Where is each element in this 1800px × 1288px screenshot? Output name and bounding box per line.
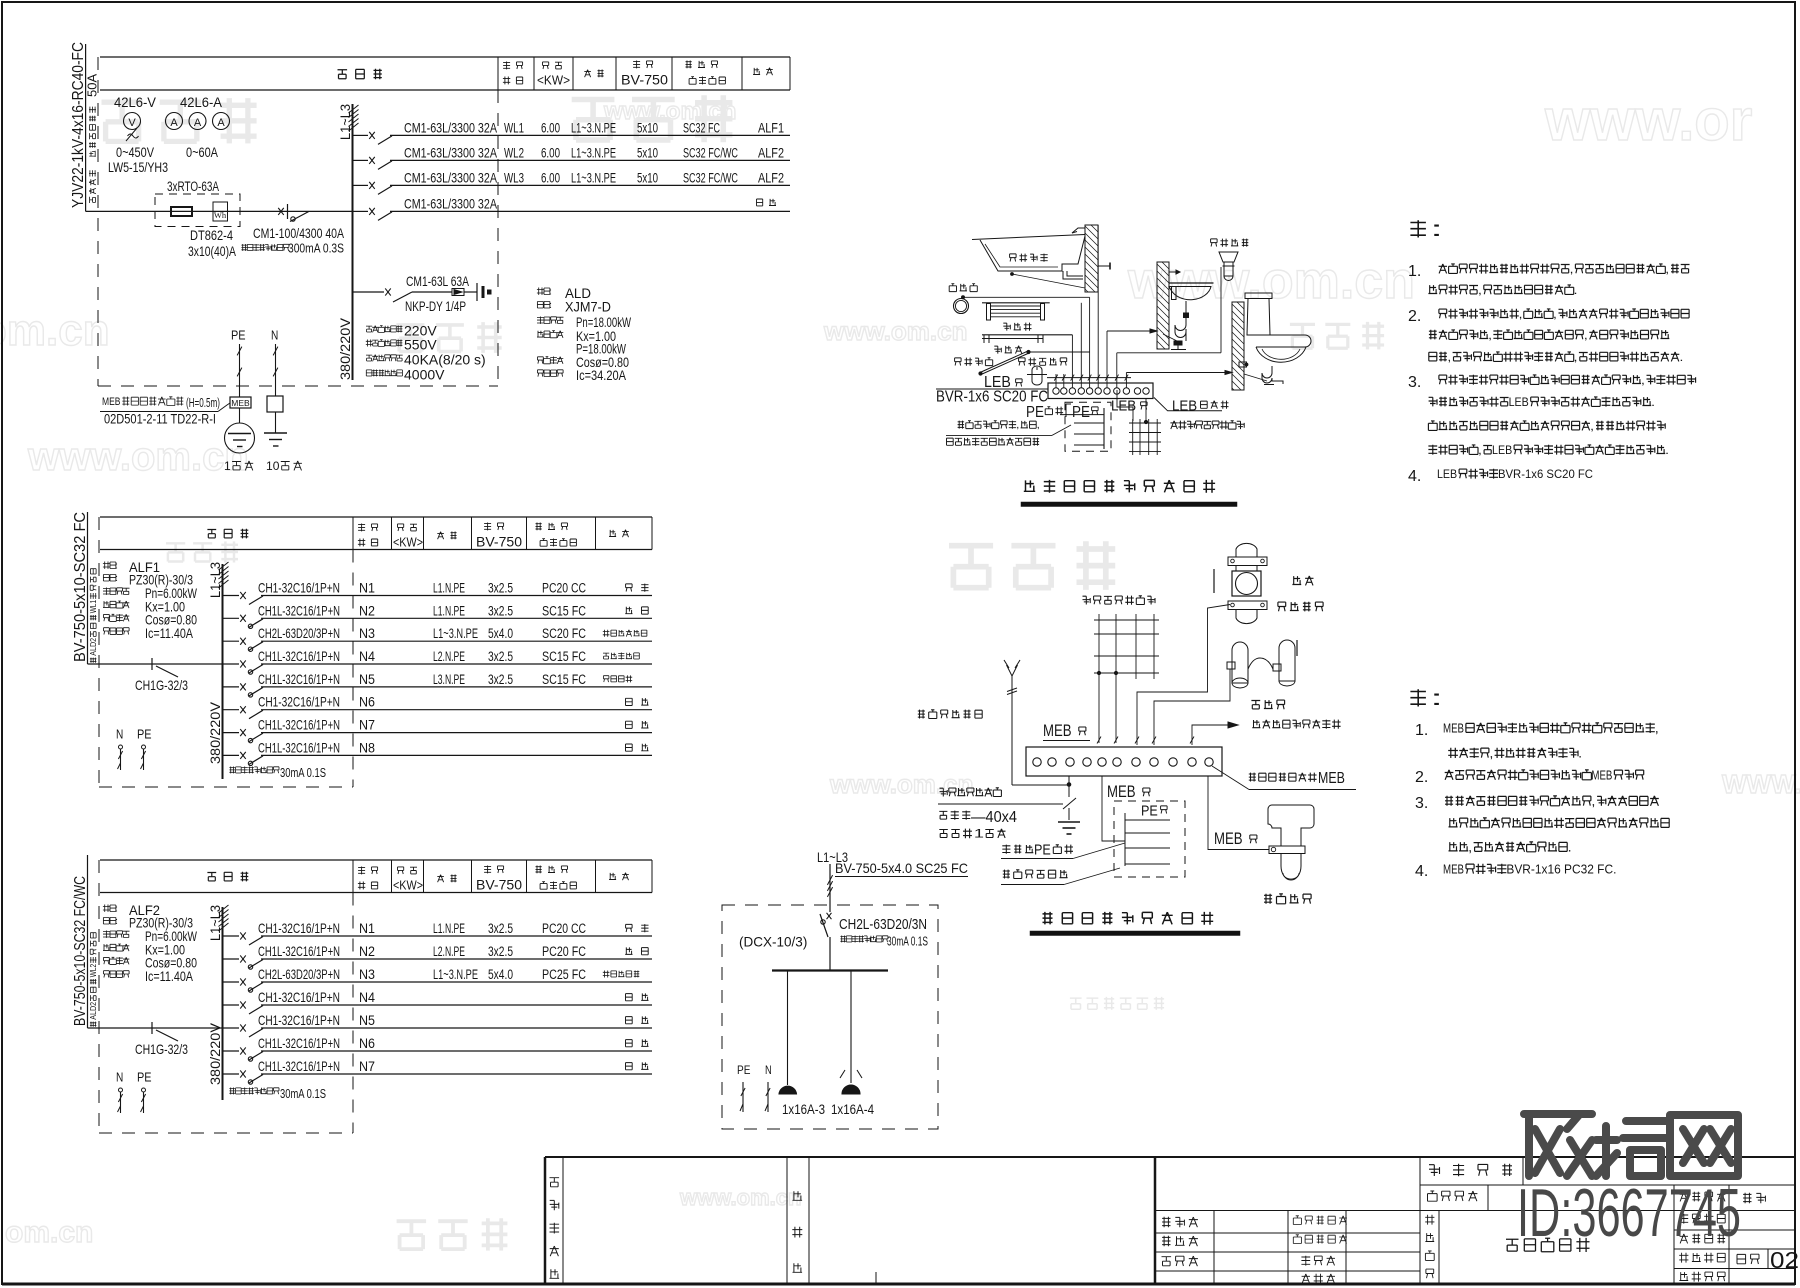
- svg-text:02D501-2-11 TD22-R-I: 02D501-2-11 TD22-R-I: [104, 412, 216, 427]
- label chu tu zhang (issue stamp): [793, 1191, 803, 1200]
- svg-text::: :: [115, 573, 118, 583]
- arrow other parts (qita xuyao lianjie de bujian): [1192, 725, 1228, 745]
- svg-text:N4: N4: [359, 990, 375, 1005]
- svg-text:3.: 3.: [1408, 374, 1421, 391]
- svg-text:5x10: 5x10: [637, 145, 658, 160]
- panel ALF1 enclosure (dashed): [98, 517, 100, 787]
- svg-text:N6: N6: [359, 1036, 375, 1051]
- ALF1 table header: [100, 516, 652, 518]
- svg-text:N: N: [116, 1070, 123, 1085]
- svg-text:PE: PE: [1141, 802, 1158, 819]
- svg-text:PE: PE: [137, 1070, 152, 1085]
- svg-text:42L6-V: 42L6-V: [114, 95, 156, 110]
- toilet bond fitting: [1239, 362, 1247, 367]
- wire to toilet: [1126, 372, 1232, 374]
- svg-text:L1~3.N.PE: L1~3.N.PE: [433, 967, 478, 982]
- svg-text:(DCX-10/3): (DCX-10/3): [739, 933, 807, 949]
- svg-text:SC32 FC/WC: SC32 FC/WC: [683, 170, 738, 185]
- notes block 2 (zhu): [1410, 687, 1443, 710]
- svg-text:CH1L-32C16/1P+N: CH1L-32C16/1P+N: [258, 648, 340, 664]
- label MEB terminal strip (zongdengdianwei duanzipai MEB): [1212, 766, 1249, 790]
- hot water pipes (reshuiguan): [1232, 642, 1248, 683]
- svg-text:MEB: MEB: [1043, 721, 1072, 740]
- svg-text:N4: N4: [359, 649, 375, 664]
- svg-text:N7: N7: [359, 1059, 375, 1074]
- svg-text:3x2.5: 3x2.5: [488, 581, 513, 596]
- ground symbol MEB: [1058, 821, 1080, 823]
- svg-text:N: N: [116, 727, 123, 742]
- metal handrail (jinshu fushou) diagonal: [980, 351, 1028, 373]
- svg-text:380/220V: 380/220V: [207, 1022, 223, 1085]
- svg-text:BV-750-5x10-SC32 FC: BV-750-5x10-SC32 FC: [72, 512, 89, 662]
- svg-text:MEB: MEB: [1318, 770, 1345, 787]
- svg-text:WL1: WL1: [89, 599, 98, 613]
- isolator box on N: [267, 396, 283, 412]
- svg-text:ALF2: ALF2: [758, 145, 784, 160]
- bus L1-L3 ALD: [352, 104, 354, 380]
- svg-text:,: ,: [1478, 443, 1482, 457]
- floor drain (jinshu dilou): [1211, 239, 1249, 247]
- toilet P-trap: [1262, 366, 1283, 384]
- svg-text:,: ,: [1447, 350, 1451, 364]
- tick in middle cell: [875, 1272, 877, 1284]
- svg-text:—40x4: —40x4: [971, 809, 1017, 826]
- wire to sink: [1107, 330, 1157, 332]
- svg-text:CH1L-32C16/1P+N: CH1L-32C16/1P+N: [258, 943, 340, 959]
- label diyagui PE mupai: [1002, 845, 1033, 854]
- svg-text:,: ,: [1468, 840, 1472, 854]
- svg-text:1x16A-4: 1x16A-4: [831, 1101, 874, 1117]
- svg-text:<KW>: <KW>: [537, 73, 570, 88]
- svg-text:BV-750: BV-750: [476, 533, 522, 549]
- main breaker CM1-100/4300: [278, 208, 284, 215]
- PE outgoing terminal: [231, 328, 246, 343]
- PE busbar bars: [1103, 408, 1105, 449]
- svg-text:BVR-1x16 PC32 FC.: BVR-1x16 PC32 FC.: [1506, 862, 1616, 876]
- svg-text:(H=0.5m): (H=0.5m): [186, 395, 220, 410]
- breaker CH1-32C16/1P+N circuit N4: [223, 1004, 240, 1006]
- surge protector branch CM1-63L 63A NKP-DY: [353, 291, 385, 293]
- svg-text::: :: [549, 300, 552, 310]
- svg-text:L2.N.PE: L2.N.PE: [433, 649, 465, 664]
- svg-text:4000V: 4000V: [404, 367, 445, 383]
- wire MEB to water meter: [1137, 605, 1230, 746]
- right column cells: [1673, 1185, 1675, 1284]
- PE busbar label: [1026, 404, 1044, 421]
- svg-text:ALD2: ALD2: [89, 637, 98, 655]
- svg-text:N2: N2: [359, 944, 375, 959]
- label zhiye zhuce zhang (license stamp): [550, 1178, 560, 1187]
- svg-text:LEB: LEB: [1509, 395, 1529, 409]
- svg-text:5x10: 5x10: [637, 170, 658, 185]
- svg-text:,: ,: [1574, 350, 1578, 364]
- breaker CH1L-32C16/1P+N circuit N2: [223, 617, 240, 619]
- decor: [102, 98, 257, 143]
- svg-text:WWW.: WWW.: [1722, 769, 1800, 799]
- svg-text:.: .: [1665, 443, 1669, 457]
- svg-text:MEB: MEB: [1214, 829, 1243, 848]
- svg-text:CM1-63L/3300 32A: CM1-63L/3300 32A: [404, 169, 498, 185]
- svg-text:3x2.5: 3x2.5: [488, 921, 513, 936]
- main incoming panel dashed box: [1114, 801, 1185, 877]
- MEB box label: [102, 396, 183, 408]
- breaker CH1L-32C16/1P+N circuit N7: [223, 732, 240, 734]
- svg-text:BV-750: BV-750: [621, 71, 668, 87]
- svg-text:ALF1: ALF1: [758, 120, 784, 135]
- svg-text:<KW>: <KW>: [393, 878, 423, 893]
- incoming feeder YJV22 cable: [85, 44, 87, 211]
- toilet tank and bowl: [1245, 293, 1272, 299]
- cell gongcheng mingcheng: [1428, 1191, 1478, 1201]
- svg-text:CH2L-63D20/3P+N: CH2L-63D20/3P+N: [258, 966, 340, 982]
- sink P-trap: [1185, 301, 1187, 313]
- svg-text:LEB: LEB: [1492, 443, 1512, 457]
- svg-text:A: A: [170, 117, 178, 129]
- MEB bonding box: [230, 397, 251, 408]
- svg-text:N: N: [765, 1063, 772, 1077]
- svg-text:,: ,: [1519, 307, 1523, 321]
- svg-text:CH1L-32C16/1P+N: CH1L-32C16/1P+N: [258, 717, 340, 733]
- title MEB diagram: [1043, 912, 1214, 925]
- breaker CH1-32C16/1P+N circuit N5: [223, 1027, 240, 1029]
- svg-text::: :: [115, 916, 118, 926]
- bus L1-L3 ALF1: [222, 564, 224, 779]
- svg-text:L2.N.PE: L2.N.PE: [433, 944, 465, 959]
- label MEB xian (middle): [1107, 782, 1136, 801]
- svg-text:A: A: [194, 117, 202, 129]
- ALD voltage spec text: [366, 326, 402, 333]
- bathroom panel dashed box: [1065, 402, 1111, 451]
- svg-text:WL1: WL1: [504, 120, 524, 135]
- svg-text:L1~3.N.PE: L1~3.N.PE: [571, 170, 616, 185]
- svg-text:PE: PE: [737, 1063, 750, 1077]
- N PE terminals ALF2: [116, 1070, 123, 1085]
- svg-text:www.om.cn: www.om.cn: [27, 435, 249, 479]
- svg-text:,: ,: [1655, 721, 1659, 735]
- svg-text:www.or: www.or: [1544, 88, 1752, 153]
- svg-text:380/220V: 380/220V: [207, 701, 223, 764]
- wire wall to trap diagonal: [1163, 334, 1181, 343]
- svg-text:om.cn: om.cn: [5, 1216, 93, 1249]
- breaker CM1-63L/3300 32A row: [353, 210, 369, 212]
- svg-text::: :: [1430, 687, 1443, 710]
- svg-text:L1~3.N.PE: L1~3.N.PE: [433, 626, 478, 641]
- svg-text:CH1-32C16/1P+N: CH1-32C16/1P+N: [258, 694, 340, 710]
- svg-text:ALF2: ALF2: [758, 170, 784, 185]
- cell tuzhi neirong (drawing content): [1438, 1211, 1440, 1285]
- breaker CH1L-32C16/1P+N circuit N8: [223, 754, 240, 756]
- svg-text:3x2.5: 3x2.5: [488, 649, 513, 664]
- ALD table header: [100, 56, 790, 58]
- svg-text:<KW>: <KW>: [393, 535, 423, 550]
- svg-text:CH1-32C16/1P+N: CH1-32C16/1P+N: [258, 1012, 340, 1028]
- svg-text:,: ,: [1590, 419, 1594, 433]
- feeder note vertical text: [89, 170, 96, 203]
- leakage current note ALF1: [229, 767, 279, 774]
- svg-text:PE: PE: [1026, 404, 1044, 421]
- main switch CH1G-32/3 ALF2: [151, 1022, 153, 1034]
- svg-text:10: 10: [266, 459, 280, 473]
- svg-text:PE: PE: [231, 328, 246, 343]
- LEB terminal strip label: [1154, 398, 1222, 411]
- svg-text:3xRTO-63A: 3xRTO-63A: [167, 179, 219, 194]
- svg-text:N2: N2: [359, 603, 375, 618]
- svg-text:www.om.cn: www.om.cn: [1127, 252, 1415, 310]
- svg-text:ID:3667745: ID:3667745: [1517, 1175, 1741, 1251]
- breaker CH1L-32C16/1P+N circuit N2: [223, 958, 240, 960]
- risers from strip to fixtures: [1055, 374, 1057, 388]
- bathtub label jinshu yugang: [1010, 254, 1048, 262]
- svg-text:BV-750-5x4.0 SC25 FC: BV-750-5x4.0 SC25 FC: [835, 860, 968, 876]
- svg-text:40KA(8/20 s): 40KA(8/20 s): [404, 352, 486, 368]
- ALF1 panel info text: [103, 560, 118, 570]
- svg-text:SC32 FC/WC: SC32 FC/WC: [683, 145, 738, 160]
- title LEB diagram: [1024, 480, 1215, 493]
- lamp circuit 1x16A-4: [850, 971, 852, 1084]
- svg-text:Ic=11.40A: Ic=11.40A: [145, 625, 194, 641]
- PE N terminals DCX: [737, 1063, 750, 1077]
- towel rack (yujinjia): [982, 302, 1050, 304]
- feeder wire into ALF2: [87, 855, 89, 1028]
- LEB wire label 2: [1111, 397, 1136, 414]
- breaker CH1L-32C16/1P+N circuit N5: [223, 686, 240, 688]
- svg-text:3x2.5: 3x2.5: [488, 603, 513, 618]
- svg-text:CH1-32C16/1P+N: CH1-32C16/1P+N: [258, 580, 340, 596]
- svg-text:N6: N6: [359, 695, 375, 710]
- svg-text:,: ,: [1553, 307, 1557, 321]
- svg-text:4.: 4.: [1408, 468, 1421, 485]
- svg-text:CM1-100/4300 40A: CM1-100/4300 40A: [253, 225, 344, 241]
- svg-text:WL2: WL2: [89, 963, 98, 977]
- watermark oumuwang logo: [1524, 1114, 1592, 1176]
- label zongjinxian peidianpan: [1003, 870, 1068, 879]
- svg-text:CM1-63L/3300 32A: CM1-63L/3300 32A: [404, 195, 498, 211]
- washbasin: [1169, 271, 1180, 273]
- svg-text:CH1-32C16/1P+N: CH1-32C16/1P+N: [258, 920, 340, 936]
- svg-text:SC15 FC: SC15 FC: [542, 672, 586, 687]
- svg-text:4.: 4.: [1415, 863, 1428, 880]
- svg-text:LEB: LEB: [1437, 467, 1457, 481]
- svg-text:30mA 0.1S: 30mA 0.1S: [280, 765, 326, 780]
- svg-text:XJM7-D: XJM7-D: [565, 299, 611, 315]
- svg-text:1: 1: [224, 459, 231, 473]
- svg-text:MEB: MEB: [102, 396, 120, 408]
- svg-text:Ic=34.20A: Ic=34.20A: [576, 367, 627, 383]
- svg-text:MEB: MEB: [1107, 782, 1136, 801]
- ALF2 table header: [100, 859, 652, 861]
- svg-text:PC20 FC: PC20 FC: [542, 944, 586, 959]
- svg-text:BVR-1x6 SC20 FC: BVR-1x6 SC20 FC: [1498, 467, 1593, 481]
- cell jianshe danwei: [1419, 1157, 1421, 1211]
- fuse DT862-4: [171, 207, 192, 216]
- svg-text:3.: 3.: [1415, 795, 1428, 812]
- svg-text:380/220V: 380/220V: [337, 317, 353, 380]
- breaker CM1-63L/3300 32A row: [353, 159, 369, 161]
- bus L1-L3 ALF2: [222, 907, 224, 1100]
- svg-text:,: ,: [1037, 420, 1040, 431]
- bonding leader from bathtub to wall base: [1012, 274, 1085, 288]
- earthing link and ground: [1067, 783, 1071, 787]
- building metal structure grid: [1132, 419, 1134, 455]
- wire MEB to hot water pipe: [1154, 669, 1230, 745]
- svg-text:L1~L3: L1~L3: [337, 104, 353, 140]
- svg-text:,: ,: [1478, 283, 1482, 297]
- svg-text:.: .: [1568, 840, 1572, 854]
- svg-text:,: ,: [1488, 328, 1492, 342]
- svg-text:CH1L-32C16/1P+N: CH1L-32C16/1P+N: [258, 739, 340, 755]
- svg-text:.: .: [1574, 283, 1578, 297]
- LEB collector line: [1047, 377, 1131, 379]
- svg-text:1.: 1.: [1415, 722, 1428, 739]
- svg-text:30mA 0.1S: 30mA 0.1S: [280, 1086, 326, 1101]
- panel ALD enclosure (dashed): [97, 57, 99, 386]
- svg-text:,: ,: [1489, 746, 1493, 760]
- svg-text:L1~3.N.PE: L1~3.N.PE: [571, 145, 616, 160]
- svg-text:V: V: [128, 117, 136, 129]
- svg-text:,: ,: [1016, 420, 1019, 431]
- svg-text:CH1G-32/3: CH1G-32/3: [135, 1041, 188, 1057]
- svg-text:,: ,: [1570, 262, 1574, 276]
- svg-text:L1~L3: L1~L3: [207, 562, 223, 598]
- svg-text:,: ,: [1641, 373, 1645, 387]
- wire MEB to PE busbar of main board: [1102, 776, 1125, 841]
- wire feeder DCX: [829, 864, 831, 912]
- MEB terminal strip: [1026, 747, 1222, 776]
- svg-text:SC32 FC: SC32 FC: [683, 120, 720, 135]
- grid risers to strip: [1098, 679, 1100, 743]
- svg-text:6.00: 6.00: [541, 145, 560, 160]
- svg-text:CH1L-32C16/1P+N: CH1L-32C16/1P+N: [258, 671, 340, 687]
- svg-text:LEB: LEB: [1111, 397, 1136, 414]
- breaker CM1-63L/3300 32A row: [353, 134, 369, 136]
- grid bond riser: [1145, 399, 1147, 423]
- svg-text:MEB: MEB: [1443, 721, 1464, 735]
- svg-text:N7: N7: [359, 718, 375, 733]
- svg-text:6.00: 6.00: [541, 170, 560, 185]
- svg-text:550V: 550V: [404, 337, 437, 353]
- svg-text:MEB: MEB: [231, 398, 250, 408]
- ground electrode 1 ohm: [225, 423, 255, 453]
- toilet wall (hatched): [1232, 302, 1244, 390]
- bathroom distribution box label: [958, 420, 1040, 431]
- svg-text:CH2L-63D20/3P+N: CH2L-63D20/3P+N: [258, 625, 340, 641]
- svg-text:BV-750: BV-750: [476, 876, 522, 892]
- label MEB xian (right): [1214, 829, 1243, 848]
- svg-text:SC20 FC: SC20 FC: [542, 626, 586, 641]
- svg-text:N1: N1: [359, 921, 375, 936]
- svg-text:CH1L-32C16/1P+N: CH1L-32C16/1P+N: [258, 602, 340, 618]
- svg-text:CH1L-32C16/1P+N: CH1L-32C16/1P+N: [258, 1035, 340, 1051]
- svg-text:.: .: [1651, 395, 1655, 409]
- svg-text:3x10(40)A: 3x10(40)A: [188, 243, 236, 259]
- svg-text:5x4.0: 5x4.0: [488, 967, 513, 982]
- svg-text:CH2L-63D20/3N: CH2L-63D20/3N: [839, 917, 927, 933]
- svg-text:CM1-63L/3300 32A: CM1-63L/3300 32A: [404, 119, 498, 135]
- breaker CH1L-32C16/1P+N circuit N6: [223, 1050, 240, 1052]
- curtain rod (yuliangan): [982, 334, 1072, 336]
- svg-text:PE: PE: [1072, 404, 1090, 421]
- lightning rod connection (bilei jiedi zhujin): [918, 710, 982, 719]
- svg-text:Wh: Wh: [214, 210, 227, 220]
- N PE terminals ALF1: [116, 727, 123, 742]
- label benceng jianzhu jinshu jiegou: [1170, 421, 1244, 430]
- lamp circuit 1x16A-3: [787, 971, 789, 1086]
- shower arm hook: [1072, 228, 1085, 233]
- faucet on wall: [1098, 265, 1110, 267]
- svg-text:BVR-1x6 SC20 FC: BVR-1x6 SC20 FC: [936, 389, 1048, 406]
- wire main ALD horizontal: [86, 210, 353, 212]
- svg-text:N: N: [271, 328, 278, 343]
- svg-text:SC15 FC: SC15 FC: [542, 603, 586, 618]
- svg-text:42L6-A: 42L6-A: [180, 95, 222, 110]
- svg-text:,: ,: [1665, 262, 1669, 276]
- towel ring (maojinhuan): [949, 284, 977, 292]
- bathtub drain pipe: [1063, 271, 1083, 279]
- svg-text:om.cn: om.cn: [0, 306, 110, 355]
- kWh meter Wh: [213, 202, 228, 221]
- feeder wire into ALF1: [87, 512, 89, 664]
- LEB line label: [984, 374, 1011, 391]
- svg-text:5x4.0: 5x4.0: [488, 626, 513, 641]
- title block: [545, 1156, 1795, 1158]
- svg-text:CM1-63L 63A: CM1-63L 63A: [406, 273, 469, 289]
- surge arrester symbol: [452, 289, 464, 296]
- svg-text:LEB: LEB: [1172, 397, 1197, 414]
- svg-text:L1.N.PE: L1.N.PE: [433, 581, 465, 596]
- ground electrode 10 ohm: [264, 432, 287, 434]
- label spare (beiyong): [757, 199, 777, 206]
- wire towel ring to riser: [963, 296, 1090, 298]
- svg-text:MEB: MEB: [1591, 768, 1612, 782]
- svg-text:50A: 50A: [85, 74, 100, 97]
- svg-text::: :: [115, 560, 118, 570]
- panel DCX enclosure (dashed): [722, 905, 938, 1129]
- svg-text:0~60A: 0~60A: [186, 145, 218, 160]
- ALD panel info text: [537, 286, 552, 296]
- svg-text:YJV22-1kV-4x16-RC40-FC: YJV22-1kV-4x16-RC40-FC: [70, 42, 87, 208]
- svg-text:1: 1: [974, 828, 984, 840]
- label MEB xian (top): [1043, 721, 1072, 740]
- svg-text:L1.N.PE: L1.N.PE: [433, 603, 465, 618]
- breaker CH1-32C16/1P+N circuit N1: [223, 935, 240, 937]
- svg-text::: :: [1430, 218, 1443, 241]
- svg-text:A: A: [217, 117, 225, 129]
- svg-text:www.om.cn: www.om.cn: [829, 769, 974, 799]
- svg-text:2.: 2.: [1415, 769, 1428, 786]
- svg-text:www.om.cn: www.om.cn: [679, 1185, 801, 1210]
- svg-text:WL3: WL3: [504, 170, 524, 185]
- N outgoing terminal: [271, 328, 278, 343]
- LEB terminal strip: [1048, 383, 1153, 399]
- breaker CH1-32C16/1P+N circuit N1: [223, 595, 240, 597]
- fuse box RT0 (dashed): [155, 194, 240, 227]
- svg-text:www.om.cn: www.om.cn: [823, 316, 968, 346]
- svg-text:CH1-32C16/1P+N: CH1-32C16/1P+N: [258, 989, 340, 1005]
- wire MEB to drain pipe: [1208, 776, 1269, 850]
- svg-text:Ic=11.40A: Ic=11.40A: [145, 968, 194, 984]
- svg-text:N3: N3: [359, 626, 375, 641]
- svg-text:N5: N5: [359, 672, 375, 687]
- notes block 1 (zhu): [1410, 218, 1443, 241]
- svg-text:MEB: MEB: [1443, 862, 1464, 876]
- svg-text:0~450V: 0~450V: [116, 145, 154, 160]
- breaker CH2L-63D20/3P+N circuit N3: [223, 640, 240, 642]
- svg-text:1x16A-3: 1x16A-3: [782, 1101, 825, 1117]
- svg-text:PC25 FC: PC25 FC: [542, 967, 586, 982]
- svg-text:ALD2: ALD2: [89, 1001, 98, 1019]
- svg-text:N3: N3: [359, 967, 375, 982]
- svg-text:PE: PE: [1034, 841, 1051, 858]
